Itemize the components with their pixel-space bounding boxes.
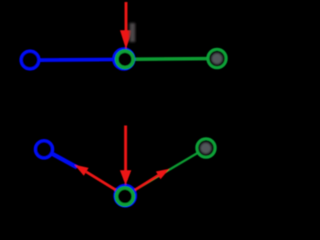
node N2: bottom center node (blue outer ring)	[115, 185, 136, 206]
node R2: gray core	[200, 142, 212, 154]
artifact: faint gray compression smudge right of arrow F1	[130, 23, 136, 42]
arrow F1: red force arrow pointing down onto node N1	[120, 2, 132, 49]
arrow F2: red force arrow pointing down onto node N2	[120, 126, 131, 186]
wire: blue edge from node L1 to center node N1 (top)	[30, 58, 124, 63]
arrow F3: red arrow from node N2 toward node L2 (up-left)	[75, 165, 116, 190]
node R1: green circle top-right with gray core	[208, 49, 226, 67]
node N1: center node (green inner ring)	[117, 51, 134, 68]
node R2: green circle bottom-right with gray core	[197, 139, 215, 157]
wire: green edge from center node N1 to node R1 (top)	[124, 57, 217, 61]
wire: blue partial edge from node L2 toward node N2 (bottom-left)	[44, 149, 77, 167]
node R1: gray core	[211, 53, 223, 65]
arrow F4: red arrow from node N2 toward node R2 (up-right)	[135, 169, 169, 190]
node N2: bottom center node (green inner ring)	[116, 188, 133, 205]
node N1: center node (blue outer ring)	[114, 49, 134, 69]
node L1: blue circle top-left	[21, 51, 39, 69]
wire: green edge from node N2 to node R2 (bottom-right)	[125, 148, 206, 196]
node L2: blue circle bottom-left	[35, 141, 52, 158]
